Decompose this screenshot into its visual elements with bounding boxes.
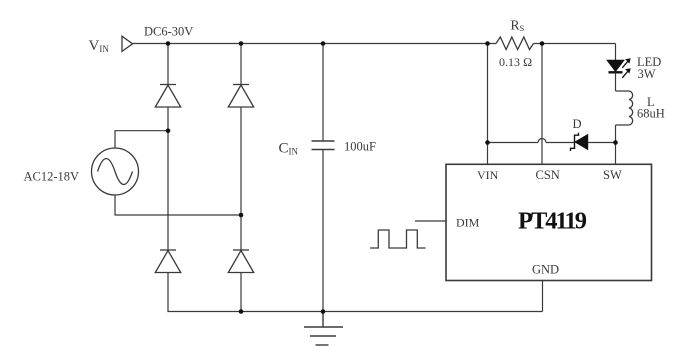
DIM square wave — [370, 230, 426, 248]
node dot rail-bridge-right — [239, 41, 244, 46]
svg-text:CIN: CIN — [279, 141, 299, 157]
wire — [615, 125, 617, 143]
svg-text:AC12-18V: AC12-18V — [24, 170, 80, 184]
svg-text:CSN: CSN — [536, 168, 560, 182]
diode D4 bridge lower-right — [228, 250, 253, 273]
node dot bottom-ground — [321, 309, 326, 314]
LED — [608, 58, 631, 78]
node dot VIN-freewheel — [485, 140, 490, 145]
ground — [304, 312, 343, 346]
IC U1 PT4119 box — [446, 164, 652, 280]
svg-text:68uH: 68uH — [637, 107, 665, 121]
wire SW branch — [615, 143, 617, 165]
svg-text:DC6-30V: DC6-30V — [144, 25, 193, 39]
schottky diode D — [571, 133, 588, 151]
node dot AC-bottom — [239, 213, 244, 218]
wire DIM input — [415, 220, 446, 222]
wire right bridge branch — [240, 44, 242, 85]
wire — [168, 273, 543, 312]
diode D2 bridge upper-right — [228, 85, 253, 108]
wire VIN branch — [487, 44, 489, 165]
node dot rail-CSN — [540, 41, 545, 46]
svg-text:SW: SW — [603, 168, 622, 182]
wire AC top lead — [115, 131, 168, 148]
svg-text:VIN: VIN — [89, 38, 110, 54]
wire left bridge branch — [167, 44, 169, 85]
wire — [167, 107, 169, 250]
svg-text:100uF: 100uF — [344, 140, 376, 154]
wire CSN branch — [541, 44, 543, 165]
inductor L — [616, 91, 633, 125]
svg-text:RS: RS — [511, 18, 525, 34]
node dot SW-freewheel — [613, 140, 618, 145]
wire LED branch from rail — [615, 44, 617, 61]
wire — [240, 107, 242, 250]
AC source V1 — [92, 148, 139, 195]
diode D3 bridge lower-left — [155, 250, 180, 273]
wire AC bottom lead — [115, 196, 241, 216]
node dot rail-bridge-left — [166, 41, 171, 46]
resistor RS zigzag — [496, 37, 534, 50]
wire freewheel net with hop over CSN — [488, 142, 539, 144]
node dot AC-top — [166, 128, 171, 133]
wire — [240, 273, 242, 312]
wire top rail right of resistor — [534, 43, 616, 45]
node dot bottom-bridge — [239, 309, 244, 314]
wire top rail DC6-30V left of resistor — [133, 43, 497, 45]
svg-text:0.13 Ω: 0.13 Ω — [499, 55, 532, 69]
input port symbol VIN — [122, 36, 133, 51]
node dot rail-VIN — [485, 41, 490, 46]
svg-text:GND: GND — [532, 263, 559, 277]
svg-text:VIN: VIN — [477, 168, 499, 182]
svg-text:PT4119: PT4119 — [518, 208, 587, 235]
svg-text:D: D — [573, 117, 582, 131]
wire GND pin — [542, 281, 544, 312]
node dot rail-CIN — [321, 41, 326, 46]
diode D1 bridge upper-left — [155, 85, 180, 108]
capacitor CIN — [322, 44, 324, 142]
svg-text:3W: 3W — [638, 67, 656, 81]
wire — [615, 73, 617, 91]
svg-text:DIM: DIM — [456, 216, 480, 230]
